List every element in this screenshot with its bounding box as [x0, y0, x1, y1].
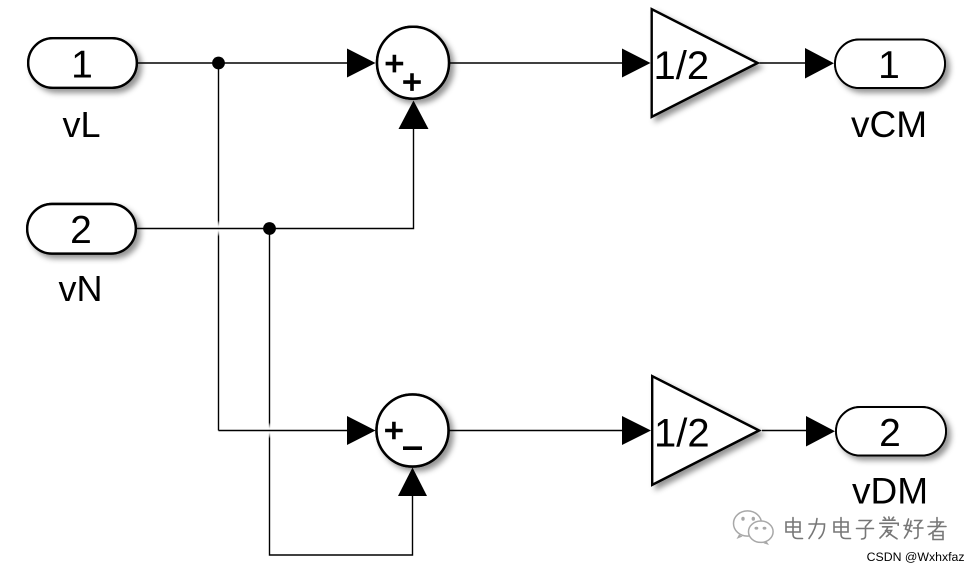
- gain block Gain1 (1/2): [652, 9, 758, 117]
- wire Sum2 output to gain block Gain2: [448, 416, 651, 445]
- svg-text:vCM: vCM: [851, 104, 927, 145]
- svg-text:1/2: 1/2: [654, 44, 710, 88]
- svg-text:vDM: vDM: [852, 471, 928, 512]
- svg-text:CSDN @Wxhxfaz: CSDN @Wxhxfaz: [867, 550, 965, 564]
- crossing fade at node (218.5,228.5): [211, 221, 227, 237]
- svg-text:vL: vL: [62, 104, 100, 145]
- svg-text:2: 2: [879, 412, 901, 455]
- gain block Gain2 (1/2): [652, 376, 759, 485]
- svg-text:1: 1: [878, 44, 900, 87]
- junction node on vL wire: [212, 57, 225, 70]
- inport 2 block: [27, 204, 136, 254]
- svg-text:1/2: 1/2: [654, 411, 710, 455]
- junction node on vN wire: [263, 222, 276, 235]
- wire vL branch horizontal into Sum2 left input: [219, 416, 376, 445]
- outport 1 block: [835, 40, 945, 89]
- svg-text:1: 1: [71, 44, 93, 87]
- inport 1 block: [28, 38, 137, 88]
- svg-text:2: 2: [70, 209, 92, 252]
- svg-text:vN: vN: [59, 268, 103, 309]
- wire vL branch vertical segment: [218, 63, 220, 431]
- sum block Sum1 (++): [377, 27, 449, 99]
- wire Sum1 output to gain block Gain1: [450, 49, 651, 78]
- wire Gain2 output to outport 2 (vDM): [762, 416, 835, 447]
- wire Gain1 output to outport 1 (vCM): [760, 48, 835, 79]
- watermark text 电力电子爱好者 (hand drawn): [786, 517, 947, 541]
- sum block Sum2 (+-): [377, 395, 449, 467]
- crossing fade at node (269.5,430.5): [262, 423, 278, 439]
- outport 2 block: [836, 407, 946, 456]
- wire vN branch down and around to Sum2 bottom input: [270, 229, 428, 556]
- watermark wechat logo: [734, 511, 774, 545]
- wire from inport 1 (vL) to sum block Sum1: [138, 49, 376, 78]
- wire from inport 2 (vN) to Sum1 bottom input: [137, 101, 429, 229]
